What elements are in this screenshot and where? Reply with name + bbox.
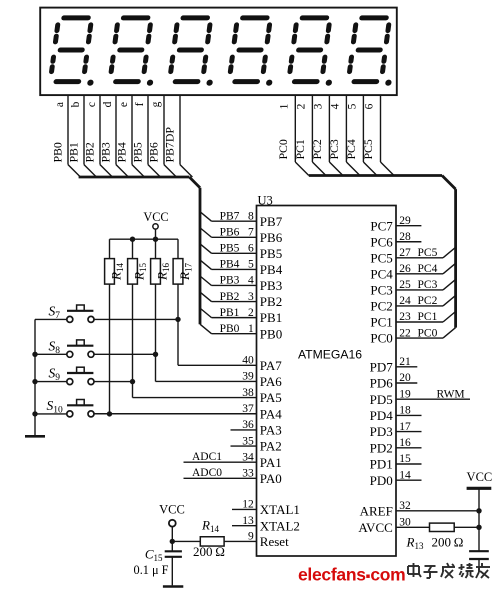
svg-text:PD0: PD0 <box>370 473 393 488</box>
svg-text:40: 40 <box>242 355 254 367</box>
svg-text:PB0: PB0 <box>220 323 240 335</box>
junction VCC-reset <box>170 539 175 544</box>
svg-text:38: 38 <box>242 387 254 399</box>
svg-text:PC3: PC3 <box>370 283 392 298</box>
svg-text:PC0: PC0 <box>276 139 290 159</box>
svg-text:4: 4 <box>329 103 341 109</box>
pin 7 PB6 <box>200 226 283 244</box>
svg-text:21: 21 <box>399 356 411 368</box>
wire segment PB6 (g) <box>147 95 177 177</box>
junction rail-S9 <box>32 379 37 384</box>
pin 28 PC6 <box>370 231 421 249</box>
bus PB (display to U3 port B) <box>79 177 200 324</box>
svg-text:4: 4 <box>248 275 254 287</box>
wire digit select 5 (PC4) <box>344 95 377 176</box>
pin 29 PC7 <box>370 215 421 233</box>
pin 6 PB5 <box>200 243 282 261</box>
svg-text:PD6: PD6 <box>370 376 394 391</box>
capacitor (AVCC decoupling) <box>469 551 489 570</box>
svg-text:0.1 μ F: 0.1 μ F <box>134 563 169 577</box>
pin 12 XTAL1 <box>232 499 300 517</box>
svg-text:PB5: PB5 <box>260 246 282 261</box>
svg-text:20: 20 <box>399 372 411 384</box>
svg-text:16: 16 <box>399 437 411 449</box>
svg-text:VCC: VCC <box>143 210 168 224</box>
junction S8 <box>153 352 158 357</box>
svg-text:PA1: PA1 <box>260 455 282 470</box>
svg-text:35: 35 <box>242 435 254 447</box>
junction AREF <box>476 508 481 513</box>
junction S7 <box>175 317 180 322</box>
svg-text:VCC: VCC <box>159 503 185 517</box>
switch S7 (push-button) <box>35 303 94 322</box>
wire digit select 6 (PC5) <box>361 95 394 176</box>
op IC U3 ATMEGA16 body <box>257 194 397 557</box>
svg-text:PB5: PB5 <box>131 142 145 162</box>
svg-text:PB3: PB3 <box>99 142 113 162</box>
svg-text:e: e <box>118 102 130 107</box>
svg-text:Reset: Reset <box>260 534 289 549</box>
svg-text:33: 33 <box>242 468 254 480</box>
svg-text:AREF: AREF <box>360 503 393 518</box>
wire segment PB7DP (dp) <box>163 95 193 177</box>
pin 8 PB7 <box>200 210 283 228</box>
pin 14 PD0 <box>370 469 422 487</box>
VCC terminal (AVCC) <box>467 470 493 551</box>
7-seg digit 4 <box>229 18 281 86</box>
svg-text:34: 34 <box>242 451 254 463</box>
pin 30 AVCC <box>358 517 479 535</box>
svg-text:PC5: PC5 <box>361 139 375 159</box>
junction S9 <box>130 379 135 384</box>
wire segment PB4 (e) <box>115 95 145 177</box>
svg-text:2: 2 <box>295 103 307 109</box>
svg-text:PC2: PC2 <box>370 299 392 314</box>
svg-text:200 Ω: 200 Ω <box>432 534 464 549</box>
svg-text:PB2: PB2 <box>220 291 240 303</box>
7-segment display module box <box>40 8 397 96</box>
junction S10-R14 <box>107 411 112 416</box>
svg-text:13: 13 <box>242 515 254 527</box>
svg-text:elecfans▪com: elecfans▪com <box>298 565 405 585</box>
7-seg digit 6 <box>348 18 400 86</box>
switch S10 (push-button) <box>35 398 94 417</box>
svg-text:PB1: PB1 <box>220 307 240 319</box>
wire S8 to pin row <box>94 354 156 381</box>
svg-text:PB4: PB4 <box>115 142 129 162</box>
pin 36 PA3 <box>231 419 282 437</box>
pin 34 PA1 <box>184 451 282 470</box>
svg-text:37: 37 <box>242 403 254 415</box>
pin 40 PA7 <box>178 355 282 373</box>
pin 21 PD7 <box>370 356 418 374</box>
svg-text:PA2: PA2 <box>260 439 282 454</box>
svg-text:26: 26 <box>399 263 411 275</box>
svg-text:ADC1: ADC1 <box>192 451 222 463</box>
pin 2 PB1 <box>200 307 282 325</box>
svg-text:PD1: PD1 <box>370 457 393 472</box>
svg-text:PC3: PC3 <box>327 139 341 159</box>
svg-text:PA0: PA0 <box>260 471 282 486</box>
pin 19 PD5 <box>370 388 470 406</box>
svg-text:9: 9 <box>248 531 254 543</box>
resistor R17 (pull-up) <box>173 239 193 319</box>
pin 33 PA0 <box>184 467 282 486</box>
junction rail-S10 <box>32 411 37 416</box>
wire segment PB1 (b) <box>67 95 97 177</box>
resistor R15 (pull-up) <box>128 239 148 381</box>
svg-text:PB4: PB4 <box>260 262 283 277</box>
svg-text:PB1: PB1 <box>67 142 81 162</box>
junction rail-VCC <box>153 237 158 242</box>
svg-text:1: 1 <box>278 103 290 109</box>
wire S9 to pin row <box>94 382 133 398</box>
svg-text:PB6: PB6 <box>260 230 283 245</box>
pin 26 PC4 <box>370 263 455 281</box>
junction AVCC <box>476 525 481 530</box>
svg-text:S9: S9 <box>49 366 61 384</box>
svg-text:24: 24 <box>399 295 411 307</box>
wire S7 to pin row <box>94 319 178 365</box>
capacitor C15 (0.1 uF) <box>134 541 182 585</box>
svg-text:S10: S10 <box>47 398 64 416</box>
VCC terminal (reset) <box>159 503 185 542</box>
pin 5 PB4 <box>200 259 283 277</box>
pin 32 AREF <box>360 500 479 518</box>
svg-text:PB3: PB3 <box>220 275 240 287</box>
pin 15 PD1 <box>370 453 422 471</box>
wire digit select 2 (PC1) <box>293 95 326 176</box>
svg-text:5: 5 <box>346 103 358 109</box>
pin 9 Reset <box>224 531 289 549</box>
svg-text:29: 29 <box>399 215 411 227</box>
svg-text:PC1: PC1 <box>370 315 392 330</box>
7-seg digit 3 <box>169 18 221 86</box>
svg-text:27: 27 <box>399 247 411 259</box>
pin 16 PD2 <box>370 437 422 455</box>
svg-text:PD3: PD3 <box>370 424 393 439</box>
pin 1 PB0 <box>200 323 282 341</box>
pin 13 XTAL2 <box>232 515 300 533</box>
svg-text:22: 22 <box>399 327 411 339</box>
svg-text:b: b <box>70 101 82 107</box>
pin 35 PA2 <box>231 435 282 453</box>
svg-text:PC4: PC4 <box>418 263 438 275</box>
svg-text:PA6: PA6 <box>260 374 282 389</box>
svg-text:PD7: PD7 <box>370 359 394 374</box>
svg-text:28: 28 <box>399 231 411 243</box>
svg-text:C15: C15 <box>145 547 163 564</box>
svg-text:U3: U3 <box>258 194 273 208</box>
svg-text:PB7DP: PB7DP <box>163 127 177 163</box>
resistor R16 (pull-up) <box>151 239 171 354</box>
resistor R13 (200 ohm) <box>406 523 464 551</box>
pin 38 PA5 <box>133 387 282 405</box>
pin 17 PD3 <box>370 421 422 439</box>
pin 23 PC1 <box>370 311 455 329</box>
svg-text:32: 32 <box>399 500 411 512</box>
svg-text:6: 6 <box>248 243 254 255</box>
ground (C15) <box>163 585 183 588</box>
svg-text:d: d <box>102 101 114 107</box>
pin 37 PA4 <box>94 403 282 421</box>
svg-text:PC0: PC0 <box>370 331 392 346</box>
resistor R14 (reset, 200 ohm) <box>172 518 225 559</box>
pin 22 PC0 <box>370 327 455 345</box>
svg-text:ATMEGA16: ATMEGA16 <box>298 347 362 361</box>
junction rail-S8 <box>32 352 37 357</box>
svg-text:15: 15 <box>399 453 411 465</box>
7-seg digit 5 <box>288 18 340 86</box>
svg-text:PC3: PC3 <box>418 279 438 291</box>
svg-text:R14: R14 <box>201 518 219 535</box>
svg-text:PB7: PB7 <box>260 214 283 229</box>
wire switch common rail <box>34 319 36 436</box>
pin 20 PD6 <box>370 372 418 390</box>
switch S8 (push-button) <box>35 338 94 357</box>
svg-text:5: 5 <box>248 259 254 271</box>
svg-text:2: 2 <box>248 307 254 319</box>
svg-text:PA7: PA7 <box>260 358 282 373</box>
svg-text:PC0: PC0 <box>418 327 438 339</box>
svg-text:PB0: PB0 <box>260 326 282 341</box>
svg-text:19: 19 <box>399 388 411 400</box>
svg-text:PC1: PC1 <box>418 311 438 323</box>
wire digit select 3 (PC2) <box>310 95 343 176</box>
svg-text:PB7: PB7 <box>220 210 240 222</box>
svg-text:23: 23 <box>399 311 411 323</box>
svg-text:VCC: VCC <box>467 470 493 484</box>
bus PC (display to U3 port C) <box>309 176 456 328</box>
svg-text:PB2: PB2 <box>83 142 97 162</box>
svg-text:f: f <box>134 102 146 106</box>
svg-text:PC7: PC7 <box>370 218 393 233</box>
svg-text:a: a <box>54 102 66 107</box>
svg-text:S7: S7 <box>49 303 61 321</box>
svg-text:R13: R13 <box>406 534 424 551</box>
svg-text:PD2: PD2 <box>370 440 393 455</box>
VCC terminal (pull-up rail) <box>143 210 168 239</box>
pin 39 PA6 <box>156 371 283 389</box>
pin 25 PC3 <box>370 279 455 297</box>
svg-text:25: 25 <box>399 279 411 291</box>
wire segment PB2 (c) <box>83 95 113 177</box>
svg-text:3: 3 <box>312 103 324 109</box>
wire segment PB5 (f) <box>131 95 161 177</box>
pin 24 PC2 <box>370 295 455 313</box>
svg-text:PB6: PB6 <box>220 226 240 238</box>
svg-text:PD5: PD5 <box>370 392 393 407</box>
svg-text:RWM: RWM <box>437 388 465 400</box>
svg-text:PC4: PC4 <box>370 266 393 281</box>
svg-text:PB3: PB3 <box>260 278 282 293</box>
svg-text:S8: S8 <box>49 338 61 356</box>
svg-text:36: 36 <box>242 419 254 431</box>
svg-text:PC2: PC2 <box>310 139 324 159</box>
pin 27 PC5 <box>370 247 455 265</box>
svg-text:PD4: PD4 <box>370 408 394 423</box>
svg-text:PC4: PC4 <box>344 139 358 159</box>
svg-text:PB5: PB5 <box>220 243 240 255</box>
svg-text:PC6: PC6 <box>370 234 393 249</box>
svg-text:12: 12 <box>242 499 254 511</box>
svg-text:PC2: PC2 <box>418 295 438 307</box>
7-seg digit 1 <box>50 18 102 86</box>
wire digit select 1 (PC0) <box>276 95 309 176</box>
switch S9 (push-button) <box>35 366 94 385</box>
pin 3 PB2 <box>200 291 282 309</box>
svg-text:PC1: PC1 <box>293 139 307 159</box>
svg-text:30: 30 <box>399 517 411 529</box>
7-seg digit 2 <box>109 18 161 86</box>
svg-text:7: 7 <box>248 226 254 238</box>
svg-text:ADC0: ADC0 <box>192 467 222 479</box>
svg-text:PC5: PC5 <box>418 247 438 259</box>
svg-text:XTAL1: XTAL1 <box>260 502 300 517</box>
wire segment PB0 (a) <box>51 95 81 177</box>
svg-text:AVCC: AVCC <box>358 520 392 535</box>
svg-text:18: 18 <box>399 405 411 417</box>
svg-text:200 Ω: 200 Ω <box>193 544 225 559</box>
resistor R14 (pull-up) <box>105 239 125 414</box>
svg-text:1: 1 <box>248 323 254 335</box>
svg-text:XTAL2: XTAL2 <box>260 518 300 533</box>
ground (switch rail) <box>25 435 45 438</box>
logo chinese text <box>408 563 490 578</box>
svg-text:PA3: PA3 <box>260 423 282 438</box>
svg-text:6: 6 <box>364 103 376 109</box>
wire segment PB3 (d) <box>99 95 129 177</box>
svg-text:c: c <box>86 102 98 107</box>
svg-text:g: g <box>150 101 162 107</box>
svg-text:PB4: PB4 <box>220 259 240 271</box>
svg-text:PB6: PB6 <box>147 142 161 162</box>
svg-text:PB1: PB1 <box>260 310 282 325</box>
wire digit select 4 (PC3) <box>327 95 360 176</box>
svg-text:14: 14 <box>399 469 411 481</box>
svg-text:PC5: PC5 <box>370 250 392 265</box>
svg-text:PA5: PA5 <box>260 390 282 405</box>
svg-text:3: 3 <box>248 291 254 303</box>
svg-text:PB0: PB0 <box>51 142 65 162</box>
pin 4 PB3 <box>200 275 282 293</box>
svg-text:39: 39 <box>242 371 254 383</box>
junction rail-R15 <box>130 237 135 242</box>
svg-text:17: 17 <box>399 421 411 433</box>
svg-text:PA4: PA4 <box>260 406 282 421</box>
svg-text:8: 8 <box>248 210 254 222</box>
wire VCC rail <box>110 238 179 240</box>
svg-text:PB2: PB2 <box>260 294 282 309</box>
pin 18 PD4 <box>370 405 422 423</box>
